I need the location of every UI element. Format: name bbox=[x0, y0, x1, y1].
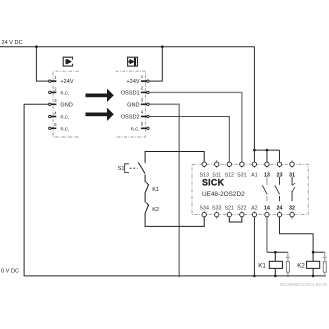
receiver pin 5 bbox=[147, 127, 149, 129]
sender pin 3 bbox=[49, 103, 51, 105]
sender pin 5 bbox=[49, 127, 51, 129]
svg-text:S21: S21 bbox=[225, 205, 234, 211]
relay contact 13-14 bbox=[266, 177, 268, 201]
junction dot bbox=[266, 149, 269, 152]
sender pin 1 bbox=[49, 80, 57, 130]
switch S1 bbox=[138, 162, 145, 173]
svg-text:S13: S13 bbox=[199, 172, 208, 178]
svg-text:A2: A2 bbox=[251, 205, 258, 211]
wire 0V rail bbox=[24, 104, 326, 276]
svg-text:S22: S22 bbox=[237, 205, 246, 211]
relay terminals bottom row bbox=[202, 212, 294, 216]
terminal inner stubs bbox=[204, 166, 292, 212]
receiver pin 1 bbox=[141, 80, 149, 130]
terminal stub 31 bbox=[291, 160, 293, 162]
terminal stub S11 bbox=[216, 160, 218, 162]
svg-text:S31: S31 bbox=[237, 172, 246, 178]
junction dot bbox=[35, 45, 38, 48]
svg-text:S33: S33 bbox=[212, 205, 221, 211]
junction dot bbox=[274, 275, 277, 278]
svg-text:+24V: +24V bbox=[60, 79, 73, 85]
receiver pin 2 bbox=[147, 91, 149, 93]
receiver icon bbox=[128, 57, 138, 66]
svg-text:0 V DC: 0 V DC bbox=[1, 268, 19, 274]
junction dot bbox=[178, 275, 181, 278]
svg-text:K1: K1 bbox=[258, 262, 266, 269]
junction dot bbox=[253, 275, 256, 278]
svg-text:n.c.: n.c. bbox=[131, 126, 140, 132]
wire OSSD1 to S31 bbox=[149, 92, 242, 162]
junction dot bbox=[287, 275, 289, 277]
svg-text:GND: GND bbox=[127, 102, 139, 108]
wire sender GND pin3 bbox=[24, 103, 49, 105]
svg-text:24 V DC: 24 V DC bbox=[2, 40, 23, 46]
wire receiver GND to 0V rail bbox=[149, 104, 179, 276]
svg-text:K1: K1 bbox=[152, 187, 159, 193]
svg-text:23: 23 bbox=[277, 172, 283, 178]
sender pin labels bbox=[60, 79, 73, 132]
svg-text:13: 13 bbox=[264, 172, 270, 178]
relay contact 31-32 bbox=[292, 177, 295, 201]
wire OSSD2 to S12 bbox=[149, 117, 229, 163]
wire 24V rail bbox=[0, 47, 254, 163]
sender pin 4 bbox=[49, 115, 51, 117]
svg-text:n.c.: n.c. bbox=[60, 90, 69, 96]
wire rail to sender pin1 bbox=[36, 47, 48, 81]
relay UE48 box bbox=[192, 164, 308, 214]
svg-text:GND: GND bbox=[60, 102, 72, 108]
jumper S21-S22 bbox=[229, 217, 242, 222]
wire A1 feed from rail bbox=[254, 150, 279, 162]
suppressor K2 bbox=[324, 252, 326, 276]
receiver pin numbers bbox=[141, 74, 144, 126]
junction dot bbox=[312, 251, 315, 254]
terminal stub 32 bbox=[291, 217, 293, 219]
contact K2 bbox=[146, 202, 148, 205]
coil K1 bbox=[274, 252, 276, 261]
svg-text:+24V: +24V bbox=[126, 79, 139, 85]
svg-text:OSSD1: OSSD1 bbox=[121, 90, 140, 96]
svg-text:32: 32 bbox=[289, 205, 295, 211]
relay contact 23-24 bbox=[279, 177, 281, 201]
receiver pin 3 bbox=[147, 103, 149, 105]
junction dot bbox=[312, 275, 315, 278]
connector sender dashed box bbox=[53, 71, 79, 137]
sender pin 2 bbox=[49, 91, 51, 93]
receiver pin 4 bbox=[147, 115, 149, 117]
svg-text:OSSD2: OSSD2 bbox=[121, 115, 140, 121]
svg-text:UE48-2OS2D2: UE48-2OS2D2 bbox=[202, 191, 245, 198]
suppressor K1 bbox=[287, 252, 289, 276]
contact K1 bbox=[146, 182, 148, 185]
wire 24 to K2 coil bbox=[280, 217, 314, 252]
svg-text:S34: S34 bbox=[199, 205, 208, 211]
svg-text:S1: S1 bbox=[118, 166, 125, 172]
svg-text:SICK: SICK bbox=[202, 178, 225, 188]
wire receiver pin1 to rail bbox=[149, 47, 162, 81]
svg-text:24: 24 bbox=[277, 205, 283, 211]
receiver pin labels bbox=[121, 79, 140, 132]
svg-text:K2: K2 bbox=[152, 207, 159, 213]
relay terminals top row bbox=[202, 162, 294, 166]
svg-text:31: 31 bbox=[289, 172, 295, 178]
svg-text:n.c.: n.c. bbox=[60, 126, 69, 132]
sender pin numbers bbox=[54, 75, 57, 127]
arrow OSSD1 bbox=[86, 89, 114, 121]
wire A2 to 0V bbox=[253, 217, 255, 276]
relay terminal labels bottom bbox=[199, 205, 295, 211]
svg-text:K2: K2 bbox=[297, 262, 305, 269]
svg-text:A1: A1 bbox=[251, 172, 258, 178]
svg-text:S12: S12 bbox=[225, 172, 234, 178]
sender icon bbox=[63, 57, 72, 66]
coil K2 bbox=[312, 252, 314, 261]
svg-text:n.c.: n.c. bbox=[60, 115, 69, 121]
svg-text:8014688/01/2014-08-06: 8014688/01/2014-08-06 bbox=[280, 282, 327, 287]
svg-text:S11: S11 bbox=[212, 172, 221, 178]
terminal stub S33 bbox=[216, 217, 218, 219]
S1 actuator bbox=[125, 164, 138, 173]
junction dot bbox=[161, 45, 164, 48]
wire S13 reset chain bbox=[138, 152, 204, 227]
relay terminal labels top bbox=[199, 172, 295, 178]
arrow OSSD2 bbox=[86, 113, 108, 117]
connector receiver dashed box bbox=[116, 71, 146, 137]
junction dot bbox=[253, 149, 256, 152]
svg-text:14: 14 bbox=[264, 205, 270, 211]
wire 14 to K1 coil bbox=[266, 217, 268, 252]
junction dot bbox=[274, 251, 277, 254]
